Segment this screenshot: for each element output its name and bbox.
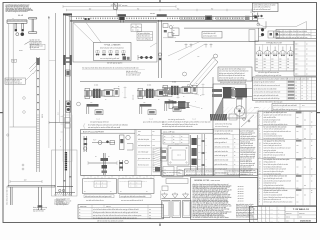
marker circle left of F1	[77, 102, 81, 106]
svg-text:xxx: xxx	[264, 58, 266, 60]
beam fitting small F0	[85, 18, 90, 20]
bracket left leg	[11, 187, 13, 205]
svg-text:gusse conn see see: gusse conn see see	[138, 158, 150, 160]
caption under F1	[90, 120, 110, 123]
dark cluster T1 right	[123, 56, 130, 60]
foot note N4	[33, 206, 47, 212]
svg-text:xxx: xxx	[287, 64, 289, 66]
panel A bracket figure	[84, 136, 88, 152]
svg-text:2023-09-05: 2023-09-05	[300, 221, 311, 223]
svg-text:xxxx: xxxx	[299, 217, 302, 219]
svg-text:xxx: xxx	[304, 147, 306, 149]
leader note N1 with arrow	[25, 39, 46, 50]
svg-text:A - A: A - A	[18, 14, 23, 17]
svg-text:xxx: xxx	[271, 67, 273, 69]
svg-text:xxx x: xxx x	[286, 221, 290, 223]
svg-text:xxx: xxx	[297, 194, 299, 196]
rail segment outline RS2	[216, 17, 244, 19]
svg-text:xxx x: xxx x	[295, 59, 298, 61]
dimension vertical line with arrow	[48, 16, 50, 148]
tank area header box	[162, 170, 183, 177]
svg-text:xxx x: xxx x	[295, 69, 298, 71]
svg-text:x xx: x xx	[197, 56, 200, 58]
svg-text:xx: xx	[137, 30, 139, 32]
separator line mid	[80, 80, 190, 82]
svg-text:xxx x: xxx x	[295, 64, 298, 66]
K2 connection cluster	[157, 14, 167, 60]
svg-text:xxx: xxx	[279, 64, 281, 66]
svg-text:xxx: xxx	[153, 131, 155, 133]
svg-text:xxx: xxx	[304, 185, 306, 187]
section panel P3	[213, 77, 284, 130]
svg-text:xxx: xxx	[256, 61, 258, 63]
caption under F2	[143, 120, 164, 123]
svg-text:xxx x: xxx x	[295, 49, 298, 51]
svg-text:xxx: xxx	[287, 58, 289, 60]
svg-text:xxx: xxx	[297, 187, 299, 189]
svg-text:xxxx xxxx: xxxx xxxx	[80, 206, 87, 208]
svg-text:xxx: xxx	[149, 209, 151, 211]
junction circle near beam end	[257, 23, 260, 26]
tank K3	[183, 201, 192, 218]
K1 drop lines to box	[120, 20, 123, 22]
svg-text:xxx xx: xxx xx	[286, 217, 290, 219]
svg-text:xxx: xxx	[287, 67, 289, 69]
svg-text:xxxxx xx: xxxxx xx	[250, 12, 256, 14]
svg-text:xxx: xxx	[279, 67, 281, 69]
svg-text:xxx: xxx	[264, 67, 266, 69]
K2 drop lines	[159, 20, 162, 78]
svg-text:xxx x: xxx x	[138, 131, 141, 133]
hatched bar in panel A	[153, 147, 162, 172]
leader note N5	[54, 199, 67, 206]
svg-text:xxx: xxx	[304, 138, 306, 140]
svg-text:xxx: xxx	[297, 117, 299, 119]
note box over plan NB1	[202, 32, 222, 39]
tank K1	[162, 201, 171, 218]
key symbol box top	[114, 3, 118, 9]
svg-text:- xx xxx xx: - xx xxx xx	[237, 193, 244, 195]
svg-text:xxx: xxx	[297, 124, 299, 126]
svg-text:FT 27'-6 3/4" xx xxx: FT 27'-6 3/4" xx xxx	[111, 5, 128, 7]
dimension line D2	[67, 8, 117, 16]
technical note box TN1	[218, 67, 252, 82]
materials table MT2	[214, 129, 240, 176]
callout box CB3	[172, 28, 179, 36]
inclined bar member	[187, 54, 218, 89]
caption under AB1	[256, 71, 282, 77]
centering mark right	[317, 112, 320, 113]
svg-text:xxx: xxx	[149, 212, 151, 214]
svg-text:xxx: xxx	[297, 138, 299, 140]
connection detail figure F2	[137, 85, 180, 115]
hatched bar below P3	[210, 114, 237, 121]
svg-text:xxx: xxx	[271, 61, 273, 63]
title block outer	[250, 206, 317, 222]
small bracket left of tanks	[161, 186, 168, 200]
dimension line x59	[59, 100, 61, 123]
svg-text:TYPICAL BOLT LIST: TYPICAL BOLT LIST	[266, 42, 282, 45]
P3 caption	[215, 123, 232, 129]
schedule table MR1	[253, 77, 317, 101]
svg-text:xx x: xx x	[271, 213, 274, 215]
svg-text:xxx: xxx	[271, 58, 273, 60]
column circle boxes	[66, 101, 71, 112]
bolt glyphs in AB1	[256, 47, 294, 56]
svg-text:xx xxx: xx xxx	[94, 85, 98, 87]
note lines mid 2	[162, 121, 211, 129]
plan band top line	[184, 27, 266, 29]
washer W1	[16, 33, 19, 36]
connection detail figure F1	[84, 85, 127, 115]
typical detail inner panel T1	[94, 43, 132, 61]
narrow table NT1	[294, 41, 317, 76]
svg-text:TYPICAL xx HANGER: TYPICAL xx HANGER	[104, 43, 122, 46]
panel A header strip	[81, 131, 136, 133]
svg-text:xxx: xxx	[264, 61, 266, 63]
strip table ST1	[276, 30, 317, 39]
P3 center cluster	[222, 87, 235, 99]
column mid detail y122	[49, 115, 72, 162]
svg-text:xx: xx	[173, 30, 175, 32]
svg-text:xx xxx: xx xxx	[172, 82, 176, 84]
svg-text:xxx x: xxx x	[295, 54, 298, 56]
bottom schedule table BT1	[78, 205, 164, 220]
svg-text:xxx: xxx	[297, 180, 299, 182]
general notes dense text left column	[193, 183, 233, 219]
svg-text:- xx xxx xx: - xx xxx xx	[237, 191, 244, 193]
svg-text:xxx: xxx	[256, 64, 258, 66]
note box N2 left	[5, 73, 33, 84]
svg-text:7 x 7: 7 x 7	[93, 140, 96, 142]
parts list table PL1	[258, 111, 317, 206]
dimension line D1 long	[63, 5, 176, 8]
svg-text:xx: xx	[132, 30, 134, 32]
bracket shelf top	[8, 185, 55, 187]
panel A inner table	[137, 130, 161, 176]
svg-text:all of weld min: all of weld min	[54, 201, 64, 203]
tank top plate	[166, 179, 188, 184]
svg-text:xxx: xxx	[256, 67, 258, 69]
svg-text:38-10: 38-10	[42, 114, 44, 118]
callout table CB1	[131, 24, 142, 32]
panel B left bracket figure	[161, 148, 168, 161]
panel A rod assembly	[92, 140, 115, 145]
svg-text:xxx x: xxx x	[179, 169, 182, 171]
I-beam section S1	[29, 18, 37, 34]
svg-text:xx: xx	[137, 26, 139, 28]
small circles pair left	[22, 164, 24, 170]
guide line x55	[55, 13, 57, 196]
svg-text:x - x: x - x	[149, 119, 152, 121]
svg-text:xxx: xxx	[297, 173, 299, 175]
svg-text:- xx xxx xx: - xx xxx xx	[237, 198, 244, 200]
svg-text:BOX OF xxxxx SUPPORT: BOX OF xxxxx SUPPORT	[83, 131, 105, 133]
washer W2 filled	[21, 33, 24, 36]
svg-text:xx-x: xx-x	[153, 145, 156, 147]
svg-text:xx-x: xx-x	[153, 139, 156, 141]
dimension label 364	[12, 59, 17, 62]
svg-text:xxx: xxx	[279, 61, 281, 63]
svg-text:xxx: xxx	[271, 64, 273, 66]
bolt glyphs in T1	[96, 50, 125, 55]
beam end assembly	[245, 12, 258, 21]
svg-text:xxx: xxx	[256, 58, 258, 60]
connection cluster CL1	[232, 88, 252, 98]
panel A tee detail	[88, 153, 117, 175]
node circle	[7, 134, 9, 136]
anchor bolt table AB1	[255, 41, 294, 71]
svg-text:xxx: xxx	[297, 152, 299, 154]
plan band bottom line	[175, 41, 259, 43]
svg-text:xxx: xxx	[297, 202, 299, 204]
svg-text:xx-x: xx-x	[58, 112, 60, 115]
svg-text:xx x: xx x	[302, 105, 305, 107]
threaded rod R1 ladder	[36, 57, 40, 172]
svg-text:xxx: xxx	[149, 215, 151, 217]
F3 leader labels right	[186, 92, 203, 110]
svg-text:xxx: xxx	[279, 58, 281, 60]
hanger bolt B2	[21, 23, 23, 31]
title block mid rows	[285, 211, 317, 218]
caption strip CS1	[84, 195, 114, 198]
small table MR2	[254, 104, 317, 112]
svg-text:xx-xx: xx-xx	[19, 50, 23, 52]
svg-text:T. XX WELD CO: T. XX WELD CO	[293, 209, 309, 211]
svg-text:size and galv galv all: size and galv galv all	[215, 168, 228, 170]
panel B bottom small figures	[163, 167, 196, 176]
detail box around column base	[52, 150, 78, 196]
wire horizontal tie	[10, 126, 37, 128]
dimension line D3	[117, 8, 253, 11]
svg-text:xxxx xxx: xxxx xxx	[133, 94, 135, 100]
beam connection K3	[205, 16, 212, 21]
svg-text:x - x: x - x	[192, 119, 195, 121]
panel A bottom ticks	[81, 175, 162, 177]
panel B header	[161, 131, 213, 133]
svg-text:- xx xxx xx: - xx xxx xx	[237, 200, 244, 202]
svg-text:xxx: xxx	[287, 61, 289, 63]
column inner dark rod	[65, 152, 67, 170]
dimension line bench	[10, 180, 42, 183]
small text under TN1	[220, 81, 246, 84]
svg-text:xxx: xxx	[304, 166, 306, 168]
note block N7	[126, 70, 141, 77]
panel B mini table	[163, 135, 189, 145]
svg-text:6-0: 6-0	[89, 8, 91, 10]
centering mark bottom	[159, 224, 160, 227]
leader diagonals to F3	[168, 42, 205, 61]
callout table CB2	[137, 32, 153, 41]
title block company row	[285, 209, 317, 212]
svg-text:x xx: x xx	[143, 102, 146, 104]
svg-text:xxx: xxx	[304, 157, 306, 159]
bracket right hanger	[38, 187, 43, 210]
general notes box GN1	[191, 178, 258, 220]
rail segment outline RS1	[180, 17, 213, 19]
brace frame box BB1	[73, 23, 157, 63]
tee marks under plan band	[185, 44, 213, 48]
svg-text:xx xxxx: xx xxxx	[254, 107, 259, 109]
plan view box PV2	[118, 177, 154, 194]
panel A box	[81, 130, 162, 176]
note box NR1 top-right	[253, 3, 279, 12]
hanger bolt B1	[15, 23, 17, 31]
P3 circle figure	[234, 97, 244, 117]
svg-text:GENERAL NOTES - xxxx xx xxx: GENERAL NOTES - xxxx xx xxx	[194, 179, 220, 182]
svg-text:xx x: xx x	[271, 209, 274, 211]
svg-text:xxx: xxx	[304, 194, 306, 196]
beam lower chord line	[70, 20, 258, 22]
svg-text:xxx x: xxx x	[295, 44, 298, 46]
fitting cluster under beam left of K2	[163, 24, 176, 38]
svg-text:xxxx xxx: xxxx xxx	[286, 213, 292, 215]
svg-text:xxx: xxx	[149, 218, 151, 220]
leader diagonals to rod	[29, 62, 37, 74]
svg-text:x xx x: x xx x	[177, 155, 181, 157]
note line N6	[82, 67, 145, 70]
P3 top dark bars	[212, 89, 222, 97]
channel beam C1 top-left	[7, 18, 27, 24]
small fitting boxes EF2	[268, 31, 280, 38]
panel A right small figures	[120, 135, 134, 150]
svg-text:xx x: xx x	[271, 221, 274, 223]
note under base N3	[56, 198, 71, 207]
small bolt symbols under NR1	[253, 15, 265, 19]
main column assembly M1 rails	[63, 14, 71, 196]
drawing number row	[286, 219, 312, 223]
svg-text:xxx: xxx	[297, 166, 299, 168]
svg-text:9-0: 9-0	[211, 8, 213, 10]
column base plate and anchors	[55, 187, 76, 196]
svg-text:xxxxx xx: xxxxx xx	[299, 213, 305, 215]
dim tick between lines	[49, 60, 56, 62]
tank K2	[172, 201, 181, 218]
svg-text:xxxx xx: xxxx xx	[106, 206, 111, 208]
centering mark left	[0, 112, 3, 113]
note lines mid 1	[84, 124, 128, 129]
circle marker mid	[183, 72, 187, 76]
spec text column SP1	[240, 129, 258, 178]
wire vertical from channel left	[8, 23, 10, 186]
svg-text:see of beam galv: see of beam galv	[138, 152, 149, 154]
panel A extra bolt	[119, 160, 128, 171]
F3 secondary cluster	[169, 101, 190, 110]
svg-text:xxx: xxx	[297, 145, 299, 147]
svg-text:9-0: 9-0	[137, 8, 139, 10]
column small marks	[60, 140, 72, 182]
separator line mid 2	[181, 87, 213, 89]
svg-text:xxx x: xxx x	[295, 74, 298, 76]
svg-text:xx xxx: xx xxx	[147, 85, 151, 87]
panel B tall column figure	[191, 135, 198, 170]
wire vertical from channel right	[12, 23, 14, 127]
text rows in AB1	[255, 58, 294, 69]
end fitting EF1	[249, 28, 264, 41]
header strip above notes	[185, 169, 258, 176]
centering mark top	[159, 0, 160, 3]
column top cap	[63, 13, 73, 16]
svg-text:- xx xxx xx: - xx xxx xx	[237, 186, 244, 188]
caption strip CS2	[120, 195, 152, 198]
svg-text:xx: xx	[173, 33, 175, 35]
panel B box	[161, 130, 213, 177]
svg-text:xxx: xxx	[264, 64, 266, 66]
beam hole strip	[76, 18, 243, 20]
leader to box corner	[150, 43, 157, 47]
svg-text:xxx xxx: xxx xxx	[150, 13, 155, 15]
svg-text:364: 364	[12, 61, 15, 63]
svg-text:- xx xxx xx: - xx xxx xx	[237, 188, 244, 190]
general note text block top-left	[6, 4, 34, 13]
svg-text:x xx: x xx	[90, 102, 93, 104]
svg-text:xxx: xxx	[138, 134, 140, 136]
plan view box PV1	[83, 177, 117, 194]
panel B leader labels	[198, 138, 207, 168]
column splice box 2	[66, 70, 71, 76]
spec sketch box SK1	[240, 113, 258, 129]
svg-text:xxx: xxx	[297, 131, 299, 133]
svg-text:- xx xxx xx: - xx xxx xx	[237, 196, 244, 198]
connection detail figure F3	[162, 82, 205, 112]
plan band edges	[259, 21, 267, 41]
svg-text:xxx: xxx	[304, 129, 306, 131]
panel B right vertical pair	[201, 134, 205, 176]
parts list rows	[258, 111, 317, 203]
fitting row right of panel	[138, 55, 153, 60]
svg-text:xx x: xx x	[271, 217, 274, 219]
funnel symbols line	[162, 192, 191, 198]
svg-text:9-0: 9-0	[177, 8, 179, 10]
panel B plate detail	[168, 144, 189, 165]
revision grid	[250, 206, 286, 222]
general notes right column notes	[236, 186, 255, 218]
beam connection K1	[118, 14, 126, 20]
svg-text:xx: xx	[132, 26, 134, 28]
panel A inner divider	[134, 130, 136, 176]
monorail beam top flange	[70, 17, 258, 21]
svg-text:xxx: xxx	[304, 119, 306, 121]
svg-text:xxx x. x OF xxx: xxx x. x OF xxx	[163, 131, 175, 133]
column splice cluster 1	[63, 55, 72, 65]
svg-text:1-0: 1-0	[24, 180, 27, 182]
svg-text:x - x: x - x	[96, 119, 99, 121]
circle markers mid-left	[23, 97, 26, 114]
leader from beam end to table	[258, 21, 307, 29]
